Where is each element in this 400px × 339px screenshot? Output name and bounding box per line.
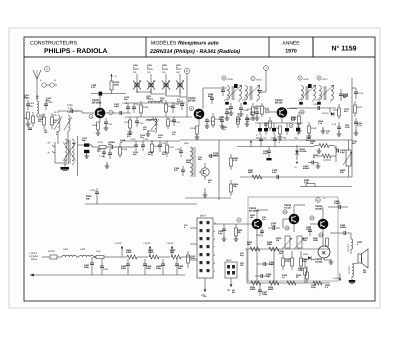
if strip bottom wire: [255, 122, 303, 124]
svg-text:200μ: 200μ: [146, 267, 152, 270]
svg-text:AC127: AC127: [284, 206, 292, 209]
label filler group G: [203, 252, 245, 298]
capacitor C116: [205, 118, 215, 128]
resistor R222: [354, 101, 364, 117]
svg-text:R220: R220: [333, 109, 339, 112]
choke L402: [79, 248, 96, 257]
svg-text:90mA: 90mA: [31, 258, 37, 261]
svg-text:50μ: 50μ: [178, 267, 182, 270]
resistor R211: [247, 103, 255, 120]
svg-text:R211: R211: [247, 108, 253, 111]
ferrite bead: [91, 84, 102, 96]
capacitor C401: [84, 257, 94, 275]
svg-text:BF195: BF195: [275, 102, 283, 105]
svg-text:100μ: 100μ: [296, 129, 301, 132]
wire mixer top: [125, 102, 185, 104]
connector SK-A tail: [201, 278, 206, 297]
svg-text:C302: C302: [256, 234, 262, 237]
antenna: [33, 70, 41, 97]
capacitor C203: [208, 93, 214, 104]
node 6 circle: [237, 218, 241, 222]
detector wire: [290, 107, 336, 109]
resistor R109: [165, 100, 175, 117]
resistor R306: [285, 251, 294, 270]
svg-text:200μ: 200μ: [156, 267, 162, 270]
wire mixer mid: [125, 116, 192, 118]
node D circle: [222, 76, 234, 81]
tone ground 2: [316, 163, 321, 169]
svg-text:C119: C119: [99, 155, 105, 158]
vertical wire: [218, 140, 220, 200]
header divider 1: [145, 37, 147, 57]
svg-text:(+13,8V): (+13,8V): [29, 255, 38, 258]
header text annee: [282, 40, 300, 55]
capacitor C306: [330, 224, 350, 235]
IF det transformer: [184, 142, 195, 177]
svg-text:R210: R210: [257, 79, 263, 82]
header divider bottom: [24, 56, 375, 58]
capacitor C106b: [104, 118, 113, 130]
svg-text:C: C: [186, 69, 188, 73]
trimmer R204: [133, 68, 141, 93]
svg-text:2,2μ: 2,2μ: [340, 151, 345, 154]
node circle: [190, 107, 194, 111]
svg-text:R117: R117: [98, 141, 104, 144]
resistor R219: [307, 122, 317, 138]
svg-text:R118: R118: [122, 148, 128, 151]
svg-text:C121: C121: [143, 138, 149, 141]
connector SK-A: [197, 215, 217, 279]
supply wire: [42, 256, 50, 258]
transistor TS206: [315, 205, 328, 229]
svg-text:R216: R216: [304, 78, 310, 81]
label filler group D: [296, 120, 331, 142]
node circle: [291, 117, 295, 121]
tone capacitor C216: [334, 146, 346, 155]
bead FG: [308, 84, 312, 88]
svg-text:C112: C112: [174, 103, 180, 106]
ground: [321, 127, 326, 133]
svg-text:PHILIPS - RADIOLA: PHILIPS - RADIOLA: [44, 48, 108, 55]
header text numero: [332, 46, 357, 53]
capacitor C110: [122, 102, 130, 113]
svg-text:CONSTRUCTEURS: CONSTRUCTEURS: [30, 41, 78, 47]
TS204 wires: [257, 210, 268, 249]
trimmer R207: [176, 68, 184, 93]
resistor R118: [119, 143, 128, 158]
capacitor C305: [255, 273, 272, 278]
arrow mid: [250, 140, 252, 147]
svg-text:+13,2V: +13,2V: [166, 242, 174, 245]
transistor TS (det): [199, 163, 209, 180]
svg-text:0,5μ: 0,5μ: [218, 232, 223, 235]
svg-text:HP: HP: [227, 289, 231, 292]
audio shield box: [248, 197, 338, 281]
volume pot: [340, 140, 352, 177]
wire: [118, 146, 134, 148]
osc coil L204: [147, 118, 159, 132]
resistor R101: [39, 113, 46, 129]
capacitor C302m: [263, 147, 272, 161]
svg-text:C314 2n: C314 2n: [347, 244, 350, 252]
svg-text:100pF: 100pF: [334, 202, 341, 205]
svg-text:4Ω: 4Ω: [232, 291, 235, 294]
ska left stubs: [184, 224, 197, 260]
svg-text:A-: A-: [48, 152, 51, 155]
svg-text:C114: C114: [175, 121, 181, 124]
node circle: [265, 109, 269, 113]
transistor TS202: [188, 97, 204, 119]
connector SK-C: [225, 259, 237, 278]
svg-text:C204: C204: [225, 108, 231, 111]
svg-text:C209: C209: [313, 103, 319, 106]
feed arrow 3: [166, 242, 174, 257]
svg-text:820pF: 820pF: [303, 167, 310, 170]
TS205 wires: [283, 205, 305, 232]
resistor R402: [96, 250, 116, 259]
feed arrow 1: [114, 242, 123, 257]
capacitor C214: [354, 118, 363, 129]
feed arrow 2: [143, 242, 151, 257]
svg-text:C123: C123: [175, 148, 181, 151]
capacitor C209: [313, 103, 320, 110]
transistor TS204: [249, 207, 262, 229]
capacitor C300: [272, 169, 279, 179]
speaker: [358, 249, 368, 274]
svg-text:12pF: 12pF: [114, 105, 120, 108]
capacitor C211: [332, 122, 341, 136]
svg-text:C105: C105: [67, 104, 73, 107]
electrolytic caps row: [256, 123, 300, 140]
svg-text:C213: C213: [358, 92, 364, 95]
mid band wire right: [237, 146, 314, 148]
capacitor C302: [256, 228, 264, 237]
header divider 3: [312, 37, 314, 57]
svg-text:Récepteurs auto: Récepteurs auto: [178, 41, 219, 47]
node circle: [310, 216, 314, 220]
resistor R223: [230, 154, 240, 170]
svg-text:500μ: 500μ: [84, 266, 90, 269]
svg-text:D: D: [223, 77, 225, 80]
osc extra cap: [177, 98, 184, 110]
resistor R108: [140, 101, 150, 117]
node C circle dup: [0, 0, 1, 1]
diode AA119b: [303, 253, 315, 260]
node NA circle: [316, 197, 327, 202]
tuning coil L2: [64, 111, 72, 144]
vertical char column 1: [347, 244, 350, 252]
ground: [96, 130, 101, 135]
svg-text:G: G: [318, 77, 320, 80]
svg-text:470k: 470k: [285, 260, 291, 263]
svg-text:50pF: 50pF: [263, 152, 269, 155]
svg-text:R222: R222: [357, 106, 363, 109]
audio extra parts: [282, 226, 323, 285]
svg-text:100μ: 100μ: [311, 286, 316, 289]
svg-text:R214: R214: [274, 127, 280, 130]
wire: [73, 111, 94, 113]
audio bottom rail: [247, 282, 330, 284]
svg-text:R217: R217: [323, 78, 329, 81]
capacitor C304: [257, 261, 275, 266]
svg-text:56Ω: 56Ω: [170, 251, 174, 254]
svg-text:C113: C113: [138, 122, 144, 125]
capacitor C105: [67, 104, 73, 113]
capacitor C117: [82, 137, 92, 158]
speaker wire down: [352, 263, 358, 264]
diode AA119: [322, 108, 334, 116]
svg-text:100Ω: 100Ω: [148, 251, 154, 254]
svg-text:R108: R108: [143, 106, 149, 109]
resistor R301: [248, 169, 262, 179]
svg-text:R209: R209: [228, 78, 234, 81]
tone resistor R226: [310, 140, 334, 148]
tuner right wire: [78, 136, 85, 176]
svg-text:C402: C402: [103, 268, 109, 271]
if strip extra parts: [220, 113, 250, 128]
label filler group A: [24, 94, 59, 136]
speaker coil top: [350, 233, 353, 249]
feed arrow audio: [333, 273, 341, 281]
svg-text:S201: S201: [184, 142, 190, 145]
capacitor C114: [172, 117, 181, 126]
capacitor C111: [132, 103, 140, 113]
svg-text:10μ: 10μ: [266, 275, 270, 278]
resistor R120: [151, 140, 161, 156]
af input wire: [214, 223, 252, 225]
node circle: [289, 124, 293, 128]
ground: [203, 188, 208, 197]
label filler group C: [219, 105, 261, 131]
pot R310: [276, 236, 292, 249]
speaker coil bottom: [351, 249, 354, 280]
resistor R212: [261, 103, 271, 117]
svg-text:1M: 1M: [276, 239, 279, 242]
resistor R220: [333, 104, 341, 119]
ground: [324, 258, 333, 264]
collector rail wire: [91, 94, 126, 108]
svg-text:C111: C111: [134, 103, 140, 106]
node 1 circle: [44, 66, 49, 71]
capacitor C406: [175, 259, 184, 275]
wire node down: [258, 66, 268, 93]
resistor R110: [124, 117, 132, 132]
right rail wire: [351, 78, 353, 177]
svg-text:560k: 560k: [248, 171, 254, 174]
capacitor C404: [143, 259, 152, 275]
capacitor C121: [141, 138, 149, 151]
resistor R308: [300, 251, 309, 270]
header text constructeurs: [30, 41, 108, 56]
resistor R300: [234, 224, 243, 241]
IF transformer D: [224, 85, 242, 105]
svg-text:C126: C126: [90, 189, 96, 192]
supply label: [29, 252, 38, 261]
svg-text:12V: 12V: [203, 295, 207, 298]
capacitor C204: [225, 103, 233, 115]
svg-text:AD162: AD162: [315, 260, 323, 263]
capacitor C124: [174, 166, 185, 176]
capacitor C125: [208, 152, 219, 158]
wire avc: [85, 195, 197, 204]
capacitor C123: [175, 147, 183, 157]
svg-text:R101: R101: [39, 114, 45, 117]
svg-text:100k: 100k: [298, 269, 304, 272]
TS206 wires: [310, 207, 323, 246]
TS201 base out wire: [105, 112, 131, 114]
svg-text:100n: 100n: [114, 83, 120, 86]
capacitor C126: [90, 188, 99, 204]
node F circle: [298, 76, 310, 81]
diode F304: [294, 145, 307, 169]
svg-text:AA119: AA119: [322, 112, 329, 115]
svg-text:500μ: 500μ: [121, 267, 127, 270]
capacitor C308: [328, 200, 348, 209]
tone resistor R227: [313, 154, 336, 159]
label R323: [357, 241, 363, 246]
resistor R111: [167, 117, 176, 129]
resistor R214: [274, 126, 282, 139]
label filler group E: [186, 156, 213, 184]
osc extra coil: [143, 117, 158, 131]
svg-text:SK-A: SK-A: [200, 215, 206, 218]
transistor TS201: [92, 99, 105, 118]
svg-text:+14,4V: +14,4V: [114, 242, 122, 245]
IF transformer F: [298, 85, 316, 105]
resistor R314: [298, 262, 307, 283]
ground: [128, 129, 133, 134]
svg-text:1970: 1970: [285, 49, 297, 55]
label filler group I: [97, 139, 168, 156]
capacitor C301: [218, 224, 226, 241]
resistor R218: [291, 112, 301, 127]
svg-text:C122: C122: [161, 142, 167, 145]
tone capacitor C217: [303, 161, 318, 171]
capacitor C403: [121, 259, 130, 275]
svg-text:R115: R115: [190, 127, 196, 130]
bottom rail: [30, 274, 185, 277]
svg-text:AD161: AD161: [315, 207, 323, 210]
wire node C down: [186, 74, 188, 117]
svg-text:4,7μ: 4,7μ: [357, 124, 362, 127]
svg-text:R110: R110: [124, 121, 130, 124]
header text modeles: [149, 40, 240, 55]
connector SK-C tail: [227, 278, 232, 292]
svg-text:K: K: [322, 251, 326, 257]
ground bar: [61, 163, 70, 171]
svg-text:220Ω: 220Ω: [126, 251, 132, 254]
trimmer R206: [162, 68, 170, 93]
fuse VL401: [48, 250, 62, 259]
svg-text:+11,8V: +11,8V: [143, 242, 151, 245]
IF transformer G: [316, 85, 334, 105]
resistor R406: [170, 249, 190, 259]
svg-text:N° 1159: N° 1159: [332, 46, 357, 53]
plug contacts A-B: [40, 79, 57, 87]
svg-text:L402: L402: [80, 248, 86, 251]
resistor R404: [116, 249, 148, 259]
capacitor C112: [171, 102, 180, 113]
capacitor above 1: [256, 134, 263, 147]
svg-text:MODÈLES: MODÈLES: [151, 40, 177, 47]
resistor R103: [92, 122, 100, 133]
svg-text:ANNÉE: ANNÉE: [282, 40, 300, 47]
resistor R104: [110, 74, 120, 94]
svg-text:R313: R313: [303, 253, 309, 256]
capacitor C303a: [268, 222, 280, 230]
svg-text:C315 2n: C315 2n: [348, 266, 351, 274]
ground: [146, 130, 155, 136]
capacitor C213: [352, 88, 364, 99]
svg-text:22RN314 (Philips) - RA341 (Rad: 22RN314 (Philips) - RA341 (Radiola): [149, 49, 240, 55]
node circle: [89, 115, 93, 119]
capacitor C120: [130, 138, 138, 151]
capacitor C122: [158, 141, 167, 152]
osc coil L203: [148, 98, 162, 103]
capacitor C107: [114, 103, 122, 115]
outer schematic frame: [24, 37, 375, 301]
audio vertical wires: [247, 249, 274, 283]
resistor R302: [247, 241, 260, 251]
TS202 collector wire: [203, 88, 227, 109]
resistor R305: [267, 241, 279, 251]
svg-text:270k: 270k: [291, 118, 297, 121]
node 10 circle: [109, 110, 113, 114]
ground: [297, 127, 302, 133]
ground: [354, 129, 359, 135]
capacitor C405: [156, 259, 165, 275]
svg-text:100μ: 100μ: [262, 293, 268, 296]
svg-text:56p: 56p: [82, 139, 86, 142]
resistor R117: [98, 141, 110, 149]
resistor R322: [268, 281, 279, 291]
sub cluster: [99, 148, 112, 168]
label filler group F: [250, 214, 331, 289]
node circle: [283, 210, 287, 214]
svg-text:400Ω: 400Ω: [268, 288, 274, 291]
resistor R317: [313, 237, 329, 246]
wire long top: [180, 139, 352, 141]
pre TS203 extra: [264, 117, 272, 131]
left tuner unit: [48, 139, 77, 165]
svg-text:SK-C: SK-C: [226, 259, 232, 262]
capacitor C210: [339, 89, 349, 101]
capacitor C103: [44, 100, 53, 110]
svg-text:L401: L401: [63, 248, 69, 251]
resistor R102: [51, 113, 58, 129]
svg-text:3,2μ: 3,2μ: [271, 224, 276, 227]
svg-text:C116: C116: [209, 120, 215, 123]
node circle: [319, 233, 323, 237]
svg-text:VL401: VL401: [48, 250, 55, 253]
tuning coil L1: [54, 111, 62, 144]
trimmer labels extra: [133, 64, 182, 69]
under DE extra: [225, 108, 260, 120]
capacitor C205: [239, 103, 249, 116]
wire af line: [240, 176, 352, 178]
node E circle: [251, 76, 263, 81]
node circle: [300, 110, 304, 114]
svg-text:AA119: AA119: [300, 150, 307, 153]
wire: [58, 111, 79, 113]
label filler group B: [124, 95, 177, 139]
resistor R224: [230, 180, 240, 196]
resistor R303: [300, 179, 352, 187]
resistor R405: [148, 249, 170, 259]
vertical char column 2: [348, 266, 351, 274]
svg-text:68pF: 68pF: [213, 154, 219, 157]
capacitor C204a: [221, 86, 225, 96]
